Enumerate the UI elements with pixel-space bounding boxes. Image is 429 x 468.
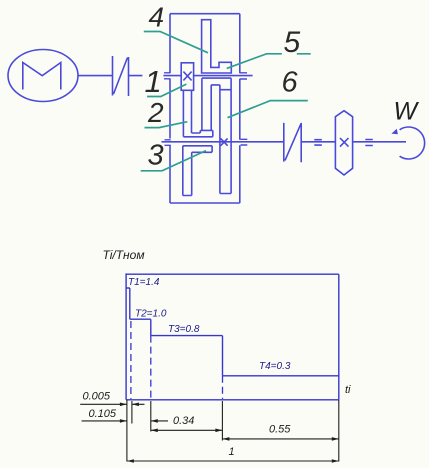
gear 4 wheel (202, 20, 232, 73)
svg-text:T4=0.3: T4=0.3 (259, 361, 291, 372)
bearing block with cross on shaft 1 (181, 63, 193, 91)
wire input shaft (78, 75, 253, 77)
dimension 1 (127, 460, 339, 462)
svg-text:T2=1.0: T2=1.0 (135, 309, 167, 320)
svg-text:1: 1 (145, 64, 162, 99)
svg-text:Ti/Тном: Ti/Тном (103, 248, 145, 262)
bearing ticks right output (241, 139, 248, 145)
motor M1 (8, 50, 78, 102)
leader 3 (141, 151, 206, 171)
joint symbol 1 (314, 140, 322, 145)
svg-text:1: 1 (229, 446, 235, 458)
cross on shaft 2 in gearbox (221, 138, 228, 145)
leader 1 (147, 84, 186, 96)
chart step T1 (126, 288, 130, 319)
chart step T4 (223, 375, 339, 377)
chart frame and axes (126, 273, 339, 399)
gear 6 column below shaft (220, 78, 231, 193)
joint symbol 2 (365, 140, 373, 146)
coupling K1 (113, 56, 129, 96)
svg-text:T1=1.4: T1=1.4 (128, 277, 160, 288)
svg-text:4: 4 (149, 2, 165, 33)
gearbox housing (170, 14, 240, 203)
svg-text:0.005: 0.005 (83, 391, 111, 403)
wire output shaft (162, 141, 407, 143)
gear 2 column and hub (183, 90, 212, 137)
leader 5 (227, 54, 311, 69)
dimension 0.34 (151, 429, 223, 431)
leader 4 (144, 32, 208, 53)
gear 3 lower block (183, 146, 212, 196)
bearing ticks right input (240, 73, 247, 79)
load arc W (391, 127, 424, 159)
svg-text:3: 3 (148, 140, 164, 172)
svg-text:0.55: 0.55 (269, 423, 291, 435)
chart dashed drop 3 (222, 376, 224, 399)
leader 2 (145, 122, 188, 128)
svg-text:2: 2 (147, 97, 164, 128)
dimension extension lines (127, 400, 339, 462)
svg-text:6: 6 (282, 67, 299, 99)
bearing ticks left input (164, 73, 170, 79)
svg-text:W: W (394, 97, 420, 125)
chart dashed drop 1 (130, 321, 132, 399)
chart dashed drop 2 (150, 336, 152, 399)
coupling K2 (284, 123, 301, 162)
gear 5 block and slot below input shaft (202, 78, 231, 130)
chart step T2 (130, 319, 151, 335)
svg-text:0.105: 0.105 (89, 408, 117, 420)
bearing ticks left output (165, 140, 171, 146)
chart step T3 (151, 336, 223, 376)
drum (335, 111, 352, 175)
dimension 0.105 (82, 420, 168, 422)
svg-text:T3=0.8: T3=0.8 (168, 324, 200, 335)
dimension 0.55 (222, 438, 338, 440)
svg-text:0.34: 0.34 (173, 415, 194, 427)
leader 6 (228, 101, 308, 118)
dimension 0.005 (80, 403, 144, 405)
svg-text:ti: ti (345, 384, 351, 396)
